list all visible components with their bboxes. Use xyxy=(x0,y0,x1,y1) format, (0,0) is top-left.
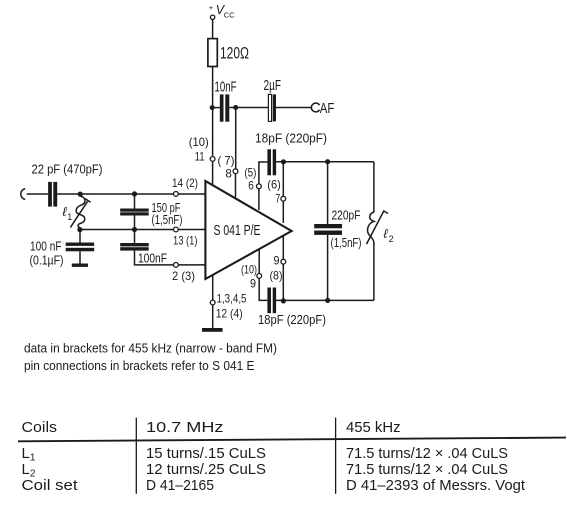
svg-text:(6): (6) xyxy=(267,177,281,191)
junction dot supply/10nF xyxy=(210,105,215,110)
svg-text:+: + xyxy=(209,3,214,12)
svg-text:71.5 turns/12 × .04 CuLS: 71.5 turns/12 × .04 CuLS xyxy=(346,461,508,478)
svg-text:71.5 turns/12 × .04 CuLS: 71.5 turns/12 × .04 CuLS xyxy=(346,445,508,462)
node Vcc terminal xyxy=(209,3,235,20)
capacitor C 100nF (0.1uF) xyxy=(30,240,95,268)
pin 9 right circle xyxy=(281,259,286,264)
wire Vcc to R1 xyxy=(212,20,214,39)
svg-text:D 41–2393 of Messrs. Vogt: D 41–2393 of Messrs. Vogt xyxy=(346,477,526,494)
svg-text:13 (1): 13 (1) xyxy=(173,234,198,248)
svg-text:(10): (10) xyxy=(241,263,257,277)
svg-text:pin connections in brackets re: pin connections in brackets refer to S 0… xyxy=(24,359,255,373)
wire input to C 22pF xyxy=(27,193,48,195)
node input terminal xyxy=(21,189,25,200)
capacitor C 150pF (1.5nF) xyxy=(120,201,182,227)
capacitor C 10nF xyxy=(215,79,237,122)
table row L2 xyxy=(22,461,509,480)
ground left xyxy=(72,264,88,267)
label pin 11 xyxy=(189,135,209,164)
label pin 8 xyxy=(218,153,235,180)
svg-text:data in brackets for 455 kHz (: data in brackets for 455 kHz (narrow - b… xyxy=(24,342,277,356)
table header rule xyxy=(18,438,566,442)
table row Coil set xyxy=(22,477,526,494)
wire pin 12 to ground xyxy=(212,305,214,328)
svg-text:8: 8 xyxy=(225,167,232,181)
svg-text:220pF: 220pF xyxy=(332,208,361,222)
svg-text:120Ω: 120Ω xyxy=(220,45,249,63)
junction dot 18pF top right xyxy=(281,159,286,164)
wire junction down to pin 8 xyxy=(235,108,237,169)
wire 150pF to 100nF2 xyxy=(134,216,136,244)
pin 13 circle xyxy=(174,227,179,232)
wire pin 9 left from U1 xyxy=(258,249,260,274)
label pin 6 xyxy=(244,165,256,192)
svg-text:CC: CC xyxy=(224,11,235,20)
junction dot tank cap bottom xyxy=(325,298,330,303)
pin 8 circle xyxy=(233,169,238,174)
wire pin 7 up xyxy=(282,162,284,197)
pin 7 circle xyxy=(281,196,286,201)
svg-text:12 turns/.25 CuLS: 12 turns/.25 CuLS xyxy=(146,461,266,478)
resistor R 120ohm xyxy=(208,39,249,67)
pin 14 circle xyxy=(174,192,179,197)
svg-text:6: 6 xyxy=(248,178,254,192)
wire pin 7 into U1 xyxy=(282,201,284,223)
wire mid rail down to C 100nF xyxy=(79,230,81,243)
label pin 7 xyxy=(267,177,281,205)
svg-text:2: 2 xyxy=(389,234,394,244)
wire right branch bottom xyxy=(373,243,375,300)
wire pin 6 into U1 xyxy=(258,189,260,210)
svg-text:9: 9 xyxy=(274,254,280,268)
svg-text:Coil set: Coil set xyxy=(22,477,79,494)
capacitor C 2uF xyxy=(264,77,282,121)
svg-text:(1,5nF): (1,5nF) xyxy=(152,213,183,227)
capacitor C 100nF second xyxy=(120,243,167,266)
svg-text:2µF: 2µF xyxy=(264,77,282,94)
wire pin 9 right down xyxy=(282,264,284,300)
svg-text:1,3,4,5: 1,3,4,5 xyxy=(217,291,247,305)
junction dot L1 bottom xyxy=(77,227,82,232)
svg-text:S 041 P/E: S 041 P/E xyxy=(214,222,261,239)
wire tank cap bottom lead xyxy=(327,235,329,301)
capacitor C 18pF bottom xyxy=(258,288,326,328)
svg-text:(0.1µF): (0.1µF) xyxy=(30,254,64,268)
wire junction to C 10nF xyxy=(213,107,220,109)
svg-text:2 (3): 2 (3) xyxy=(172,269,195,283)
capacitor C 220pF (1.5nF) xyxy=(314,208,361,250)
wire R1 down to pin 11 xyxy=(212,67,214,156)
svg-text:100 nF: 100 nF xyxy=(30,240,62,254)
label pin 9 left xyxy=(241,263,257,291)
svg-text:(10): (10) xyxy=(189,135,209,149)
node AF terminal xyxy=(311,101,334,117)
wire pin 12 from U1 xyxy=(212,275,214,300)
svg-text:7: 7 xyxy=(275,192,280,206)
inductor L2 xyxy=(367,210,394,244)
svg-text:18pF (220pF): 18pF (220pF) xyxy=(258,313,326,327)
wire top tank rail xyxy=(276,161,374,163)
wire right branch top xyxy=(373,162,375,213)
table column rule 1 xyxy=(135,418,137,494)
svg-text:22 pF (470pF): 22 pF (470pF) xyxy=(32,163,103,177)
svg-text:(5): (5) xyxy=(244,165,256,179)
inductor L1 xyxy=(63,196,91,228)
pin 12 circle xyxy=(210,300,215,305)
op-amp U1 S041 xyxy=(205,181,291,279)
junction dot 10nF/pin8 xyxy=(233,105,238,110)
svg-text:12 (4): 12 (4) xyxy=(216,306,243,320)
svg-text:11: 11 xyxy=(195,150,205,164)
svg-text:18pF (220pF): 18pF (220pF) xyxy=(255,131,327,145)
capacitor C 18pF top xyxy=(255,131,327,175)
svg-text:(8): (8) xyxy=(270,269,283,283)
svg-text:AF: AF xyxy=(320,101,335,117)
table row L1 xyxy=(22,445,509,464)
junction dot L1 top xyxy=(78,192,83,197)
svg-text:( 7): ( 7) xyxy=(218,153,235,167)
pin 11 circle xyxy=(210,157,215,162)
wire pin 9 right from U1 xyxy=(282,236,284,259)
ground main xyxy=(202,328,223,332)
wire 100nF to ground xyxy=(79,251,81,264)
wire 150pF chain top xyxy=(134,194,136,209)
wire 100nF2 down and to pin 2 xyxy=(135,251,206,265)
pin 9 left circle xyxy=(257,274,262,279)
junction dot 150pF bottom xyxy=(132,227,137,232)
wire pin 9 left to bottom cap xyxy=(259,278,267,300)
svg-text:1: 1 xyxy=(67,212,72,222)
pin 6 circle xyxy=(257,184,262,189)
junction dot 150pF top xyxy=(132,191,137,196)
svg-text:10.7 MHz: 10.7 MHz xyxy=(146,419,224,436)
wire tank cap top lead xyxy=(327,162,329,224)
wire mid rail to U1 pin 13 xyxy=(80,229,205,231)
label pin 9 right xyxy=(270,254,283,283)
junction dot tank cap top xyxy=(325,159,330,164)
svg-text:10nF: 10nF xyxy=(215,79,237,96)
wire pin 11 into U1 xyxy=(212,161,214,185)
wire pin 8 into U1 xyxy=(235,174,237,198)
wire top rail to U1 pin 14 xyxy=(57,193,205,195)
wire bottom tank rail xyxy=(276,299,374,301)
table column rule 2 xyxy=(335,418,337,494)
svg-text:Coils: Coils xyxy=(22,419,58,436)
svg-text:14 (2): 14 (2) xyxy=(172,176,198,190)
wire 2uF to AF terminal xyxy=(276,107,311,109)
svg-text:100nF: 100nF xyxy=(138,252,167,266)
wire pin 6 up to 18pF xyxy=(259,162,268,184)
pin 2 circle xyxy=(174,263,179,268)
svg-text:9: 9 xyxy=(250,276,256,290)
svg-text:D 41–2165: D 41–2165 xyxy=(146,477,214,494)
capacitor C 22pF xyxy=(32,163,103,207)
junction dot 18pF bottom right xyxy=(281,298,286,303)
svg-text:(1,5nF): (1,5nF) xyxy=(331,236,362,250)
wire 10nF to C 2uF xyxy=(229,107,268,109)
svg-text:455 kHz: 455 kHz xyxy=(346,419,401,436)
svg-text:15 turns/.15 CuLS: 15 turns/.15 CuLS xyxy=(146,445,266,462)
